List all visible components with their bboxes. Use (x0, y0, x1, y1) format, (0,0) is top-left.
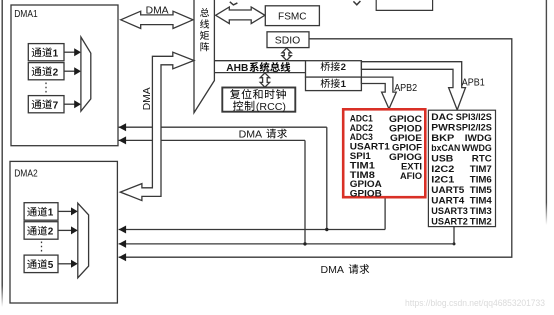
dotted ellipsis between DMA1 channels (45, 83, 47, 95)
svg-text:GPIOB: GPIOB (350, 188, 382, 199)
wire DMA request line 1 into DMA1 (119, 126, 327, 128)
wire DMA1 ch7 to mux (64, 103, 75, 105)
svg-text:TIM3: TIM3 (470, 205, 492, 216)
svg-text:SDIO: SDIO (275, 35, 301, 46)
svg-text:USART2: USART2 (431, 215, 468, 226)
AHB system bus band top line (214, 60, 305, 62)
svg-text:USB: USB (431, 153, 453, 164)
cropped box bottom at top right (flash interface) (376, 0, 432, 10)
arrowhead request line 3 into DMA2 (119, 253, 127, 261)
svg-text:WWDG: WWDG (462, 142, 492, 153)
svg-text:SPI2/I2S: SPI2/I2S (456, 121, 492, 132)
svg-text:IWDG: IWDG (465, 132, 492, 143)
wire DMA2 ch2 to mux (58, 229, 72, 231)
svg-text:1: 1 (48, 208, 54, 219)
svg-text:APB1: APB1 (462, 78, 485, 89)
wire DMA2 ch5 to mux (58, 263, 72, 265)
svg-text:DMA2: DMA2 (14, 169, 38, 180)
double arrow AHB bus to RCC (260, 73, 269, 87)
double arrow SDIO to AHB bus (282, 48, 291, 60)
svg-text:DMA: DMA (321, 265, 345, 276)
box APB1 peripherals (428, 110, 495, 226)
wire DMA request line 2 into DMA1 (119, 139, 305, 141)
svg-text:USART3: USART3 (431, 205, 468, 216)
box DMA1 channel 7 通道7 (28, 96, 64, 113)
hollow arrow bridge1 to APB2 peripherals (361, 77, 396, 109)
wire DMA1 ch2 to mux (64, 70, 75, 72)
svg-text:(RCC): (RCC) (256, 102, 286, 113)
box bridge2 桥接2 (306, 61, 362, 77)
wire DMA request line 2 into DMA2 (119, 243, 454, 245)
svg-text:DMA1: DMA1 (14, 9, 38, 20)
svg-text:AHB: AHB (226, 63, 248, 74)
wire branch request line 2 up to DMA1 (304, 140, 306, 244)
frame left edge line (cropped outer border) (2, 0, 3, 307)
AHB system bus band bottom line (214, 72, 305, 74)
svg-text:5: 5 (48, 260, 54, 271)
svg-text:SPI3/I2S: SPI3/I2S (456, 111, 492, 122)
wire APB1 box to DMA request line 2 (453, 227, 455, 244)
svg-text:2: 2 (341, 62, 346, 73)
svg-text:TIM4: TIM4 (470, 194, 493, 205)
svg-text:APB2: APB2 (394, 83, 417, 94)
svg-text:TIM7: TIM7 (470, 163, 492, 174)
svg-text:DMA: DMA (146, 6, 169, 17)
svg-text:DMA: DMA (142, 87, 153, 110)
box DMA2 channel 1 通道1 (24, 203, 58, 221)
tick mark remnant top right (353, 1, 360, 5)
dotted ellipsis between DMA2 channels (41, 242, 43, 254)
svg-text:2: 2 (53, 67, 59, 78)
junction dot line1 (325, 228, 328, 231)
svg-text:PWR: PWR (431, 121, 455, 132)
box DMA2 (10, 161, 117, 303)
box RCC 复位和时钟控制 (222, 88, 295, 112)
box SDIO (267, 32, 309, 48)
wire SDIO to DMA2 request line 3 (119, 39, 512, 257)
svg-text:I2C2: I2C2 (431, 163, 454, 174)
svg-text:1: 1 (341, 79, 347, 90)
svg-text:AFIO: AFIO (400, 170, 422, 181)
mux trapezoid DMA1 (81, 37, 91, 111)
wire APB2 box to DMA request line 1 (384, 197, 386, 229)
wire DMA request line 1 into DMA2 (119, 229, 386, 231)
wire branch request line 1 up to DMA1 (326, 127, 328, 229)
svg-text:RTC: RTC (472, 153, 492, 164)
junction dot line2 (303, 242, 306, 245)
svg-text:2: 2 (48, 227, 54, 238)
label 控制(RCC) line2 (233, 101, 243, 111)
frame right trunk line (cropped connection) (546, 0, 547, 225)
box DMA1 channel 1 通道1 (28, 44, 64, 61)
svg-text:FSMC: FSMC (278, 11, 307, 22)
box DMA1 channel 2 通道2 (28, 63, 64, 80)
label 复位和时钟 line1 (230, 89, 240, 99)
bent hollow double arrow bus matrix to DMA2 (120, 52, 194, 200)
double arrow bus matrix to FSMC (216, 7, 265, 24)
svg-text:TIM2: TIM2 (470, 215, 492, 226)
junction dot line2 right (453, 242, 456, 245)
box DMA2 channel 2 通道2 (24, 222, 58, 240)
box FSMC (265, 6, 319, 26)
box DMA1 (11, 5, 118, 146)
svg-text:TIM5: TIM5 (470, 184, 492, 195)
tick mark remnant above bus arrow (230, 2, 238, 5)
mux trapezoid DMA2 (78, 203, 89, 278)
svg-text:DMA: DMA (239, 129, 263, 140)
svg-text:I2C1: I2C1 (431, 174, 454, 185)
svg-text:1: 1 (53, 48, 59, 59)
svg-text:BKP: BKP (431, 132, 454, 143)
svg-text:UART4: UART4 (431, 194, 465, 205)
bus matrix parallelogram 总线矩阵 (194, 0, 214, 113)
wire DMA2 ch1 to mux (58, 210, 72, 212)
hollow arrow bridge2 to APB1 peripherals (361, 62, 465, 110)
svg-text:7: 7 (53, 100, 59, 111)
double arrow DMA1 to bus matrix (121, 11, 193, 28)
svg-text:DAC: DAC (431, 111, 453, 122)
label 总线矩阵 vertical (200, 8, 209, 17)
svg-text:UART5: UART5 (431, 184, 464, 195)
box APB2 peripherals red highlighted (343, 109, 425, 197)
box bridge1 桥接1 (306, 77, 362, 91)
svg-text:bxCAN: bxCAN (431, 142, 460, 153)
svg-text:httpsː//blog.csdn.net/qq468532: httpsː//blog.csdn.net/qq46853201733 (405, 298, 545, 308)
wire DMA1 ch1 to mux (64, 51, 75, 53)
svg-text:TIM6: TIM6 (470, 174, 492, 185)
box DMA2 channel 5 通道5 (24, 255, 58, 273)
